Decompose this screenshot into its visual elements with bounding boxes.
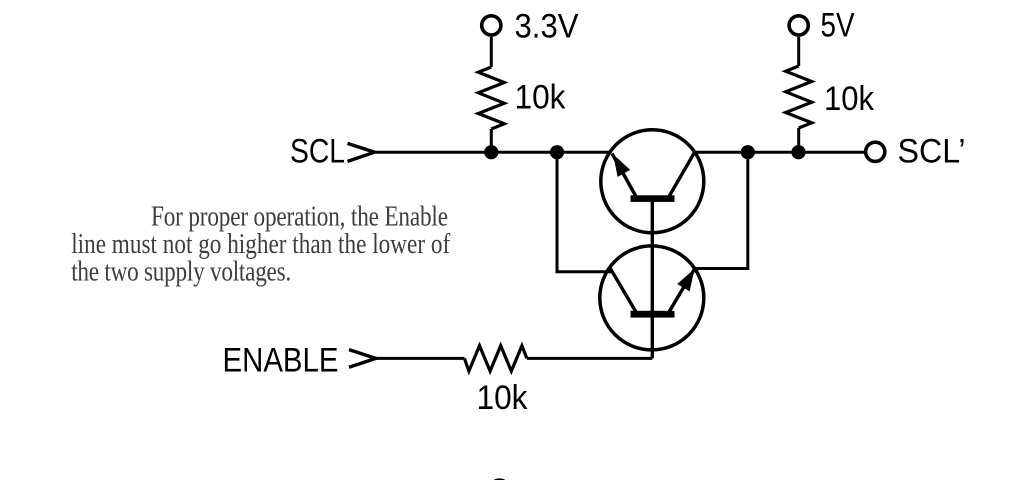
resistor R3 10k (ENABLE series) [464, 346, 527, 371]
note text line 2 [71, 227, 450, 259]
resistor R2 10k (5V pull-up) [786, 66, 812, 128]
transistor Q2 (bottom) body [600, 246, 704, 350]
label SCL' [898, 132, 966, 170]
label 10k for R3 [477, 379, 529, 417]
label 5V [821, 7, 855, 45]
svg-text:5V: 5V [821, 7, 855, 45]
wire lead from R2 to SCL' node [797, 128, 800, 152]
transistor Q1 (top) body [601, 130, 704, 233]
wire SCL net (left segment) [375, 151, 612, 154]
svg-text:SCL: SCL [290, 132, 345, 170]
label 10k for R2 [824, 80, 875, 118]
svg-text:10k: 10k [477, 379, 529, 417]
transistor Q2 base bar [631, 311, 675, 318]
label SCL [290, 132, 345, 170]
wire ENABLE net (right of R3) to base line [527, 357, 652, 360]
svg-text:10k: 10k [824, 80, 875, 118]
svg-text:the two supply voltages.: the two supply voltages. [71, 255, 291, 287]
wire right drop from SCL' node to Q2 emitter [695, 152, 748, 268]
input chevron for ENABLE [349, 350, 376, 368]
wire SCL' net (right segment) [694, 151, 864, 154]
terminal SCL' [866, 142, 885, 161]
wire left drop from SCL node to Q2 collector [557, 152, 612, 272]
transistor Q1 base bar [631, 195, 675, 202]
junction node at R1/SCL [484, 145, 498, 159]
transistor Q2 emitter arrowhead [677, 269, 694, 292]
junction node at left drop [550, 145, 564, 159]
terminal 5V [789, 16, 808, 35]
label 3.3V [515, 8, 579, 46]
svg-text:ENABLE: ENABLE [223, 342, 339, 380]
wire lead from 5V terminal to resistor R2 [797, 37, 800, 66]
transistor Q1 emitter line [612, 154, 636, 197]
wire lead from 3.3V terminal to resistor R1 [490, 37, 493, 67]
junction node at R2/SCL' [791, 145, 805, 159]
transistor Q2 emitter line [669, 269, 695, 313]
svg-text:SCL’: SCL’ [898, 132, 966, 170]
transistor Q1 collector line [669, 153, 694, 197]
label ENABLE [223, 342, 339, 380]
label 10k for R1 [515, 79, 567, 117]
svg-text:10k: 10k [515, 79, 567, 117]
wire base line connecting Q1 and Q2 bases down to ENABLE net [651, 200, 654, 358]
wire ENABLE net (left of R3) [376, 357, 465, 360]
transistor Q2 collector line [611, 269, 637, 312]
note text line 1 [151, 200, 448, 232]
note text line 3 [71, 255, 291, 287]
resistor R1 10k (3.3V pull-up) [478, 67, 504, 129]
wire lead from R1 to SCL node [490, 129, 493, 152]
terminal 3.3V [482, 16, 501, 35]
input chevron for SCL [348, 143, 375, 161]
transistor Q1 emitter arrowhead [613, 154, 630, 177]
junction node at right drop [741, 145, 755, 159]
svg-text:3.3V: 3.3V [515, 8, 579, 46]
